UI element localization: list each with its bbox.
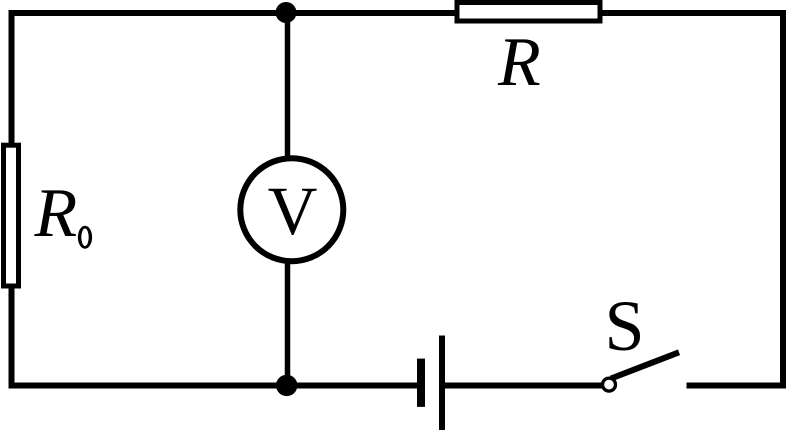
svg-text:S: S xyxy=(605,286,645,366)
node junction dot top xyxy=(276,2,297,23)
wire right vertical xyxy=(780,10,786,389)
wire middle vertical upper xyxy=(285,12,291,158)
wire left vertical xyxy=(9,10,15,386)
voltmeter V1 circle xyxy=(240,158,343,261)
wire top right segment xyxy=(600,10,786,16)
switch S blade xyxy=(611,352,679,378)
wire bottom right segment xyxy=(687,383,786,389)
node junction dot bottom xyxy=(276,375,297,396)
svg-text:R: R xyxy=(497,24,541,101)
resistor R box xyxy=(457,3,600,22)
svg-text:V: V xyxy=(268,173,318,249)
wire bottom left segment xyxy=(9,383,419,389)
svg-text:R: R xyxy=(34,175,78,252)
resistor R0 box xyxy=(4,145,19,286)
battery BT1 short plate xyxy=(417,359,425,407)
wire top left segment xyxy=(9,10,458,16)
wire bottom middle segment xyxy=(444,383,603,389)
battery BT1 long plate xyxy=(439,336,445,430)
wire middle vertical lower xyxy=(285,262,291,385)
switch S pivot circle xyxy=(603,378,616,391)
